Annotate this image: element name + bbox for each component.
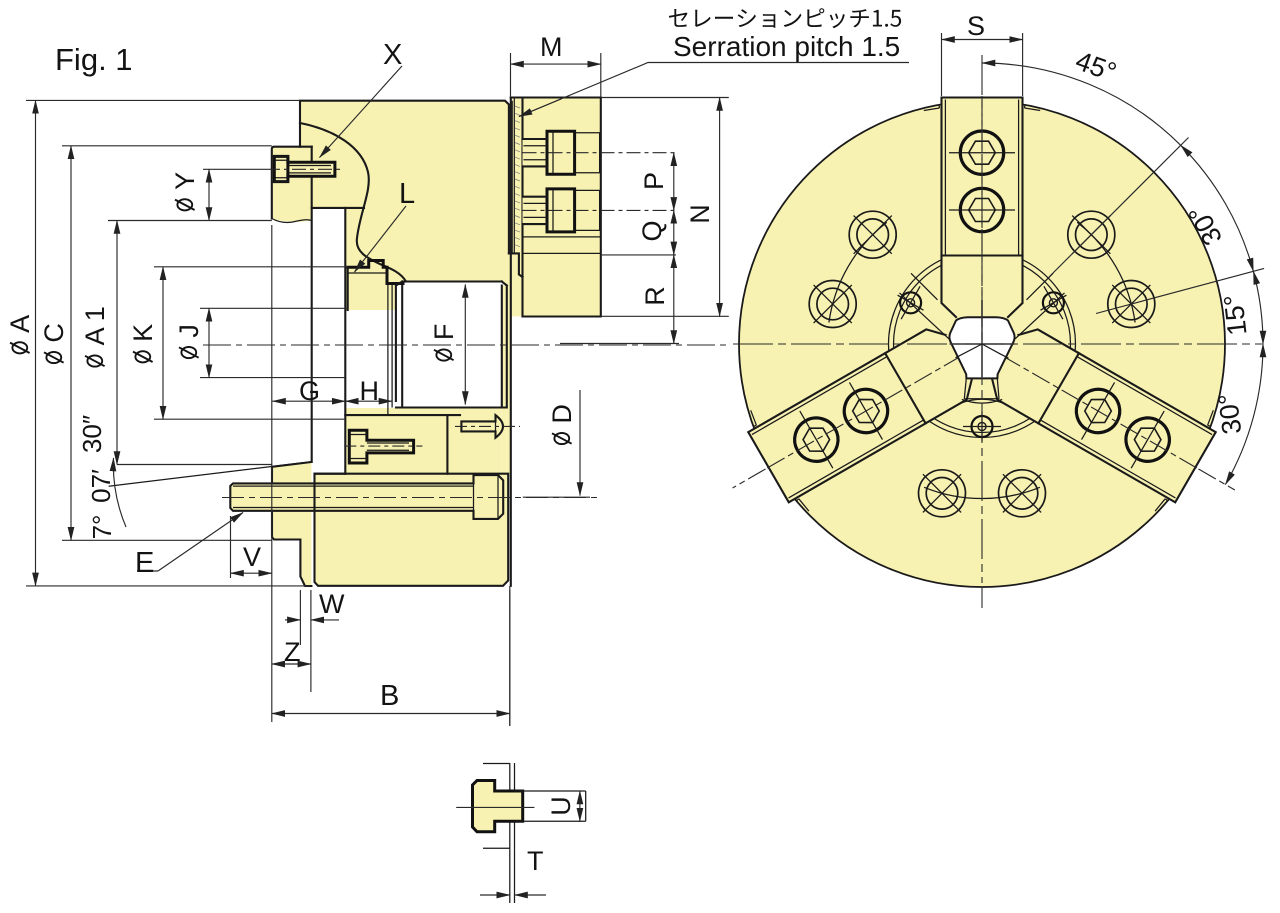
jaw (side view) fill <box>512 98 601 317</box>
svg-text:P: P <box>639 172 669 190</box>
dimension phiY <box>203 168 266 170</box>
center hole chamfer lines <box>956 344 1009 358</box>
svg-text:M: M <box>540 32 563 62</box>
wedge block fill <box>345 408 502 474</box>
45deg dim arc <box>982 63 1181 145</box>
mount hole pair arcs <box>829 222 1135 498</box>
hub circles <box>894 256 1071 433</box>
dimension W <box>300 590 311 692</box>
svg-text:B: B <box>380 680 399 712</box>
body top-left fill between curve and recess <box>300 123 369 208</box>
dimension H <box>345 400 392 402</box>
svg-text:S: S <box>967 11 985 41</box>
bore right wall fill <box>502 286 507 474</box>
svg-text:Serration pitch 1.5: Serration pitch 1.5 <box>673 31 900 62</box>
body back face <box>510 98 512 586</box>
svg-text:C: C <box>39 323 69 343</box>
P Q R N extension lines <box>560 98 729 344</box>
recess right edge <box>344 208 346 474</box>
adapter flange lower outline <box>272 462 311 586</box>
mount hole at 45 deg <box>1068 211 1115 258</box>
draw bolt centerline <box>222 497 600 499</box>
dimension M <box>511 53 601 97</box>
hole crosshair <box>950 300 1015 377</box>
dimension phiK <box>154 266 348 268</box>
leader X <box>320 66 403 158</box>
right view centerlines <box>733 343 1262 345</box>
leader L <box>355 206 407 272</box>
jaw bolt upper <box>523 131 677 174</box>
dimension V <box>231 225 272 722</box>
dimension N <box>719 98 721 317</box>
bottom body block fill <box>315 474 509 586</box>
dimension G <box>273 400 346 402</box>
jaw bolt <box>1068 381 1127 440</box>
serration strip <box>512 98 514 254</box>
T-bolt with half-round head <box>455 415 520 438</box>
adapter flange upper fill <box>272 147 312 222</box>
jaw outline <box>511 98 601 317</box>
svg-text:7°: 7° <box>87 515 117 540</box>
flange wavy break <box>272 219 312 223</box>
svg-text:30°: 30° <box>1213 392 1248 436</box>
svg-text:G: G <box>299 376 320 406</box>
jaw inner lines <box>523 237 601 254</box>
dimension U <box>579 791 581 821</box>
jaw axis extension -30deg <box>1199 469 1235 490</box>
jaw bolt <box>960 188 1003 231</box>
svg-text:X: X <box>383 39 402 71</box>
left view centerline <box>203 344 731 346</box>
dimension S <box>942 33 1023 96</box>
body sectional S-curve <box>300 123 406 282</box>
chuck body upper fill <box>300 101 523 474</box>
dimension Z <box>272 663 311 665</box>
B extension line <box>509 586 511 726</box>
body right edge lower step <box>509 253 523 277</box>
dimension T <box>510 849 515 903</box>
socket screw lower <box>344 430 422 463</box>
dimension Q <box>673 210 675 255</box>
chuck disc <box>739 101 1225 587</box>
dimension P <box>673 153 675 211</box>
dimension phiC <box>62 145 272 147</box>
dimension phiA1 <box>108 220 272 222</box>
svg-text:A: A <box>5 315 35 333</box>
svg-text:H: H <box>360 376 380 406</box>
dimension phiA <box>26 99 300 101</box>
svg-text:Fig. 1: Fig. 1 <box>55 42 133 77</box>
jaw bolt <box>1118 410 1177 469</box>
jaw bolt <box>960 131 1003 174</box>
radial line 15deg <box>1096 268 1264 313</box>
jaw assembly top <box>942 92 1023 320</box>
dimension phiF <box>464 285 466 405</box>
hub screws <box>1041 286 1067 319</box>
svg-text:K: K <box>128 324 158 342</box>
T-nut <box>473 781 523 832</box>
dimension R <box>673 255 675 344</box>
hub gap guide lines <box>900 273 950 339</box>
flange right edge / recess left edge <box>311 147 313 462</box>
spindle bore outline <box>396 282 507 408</box>
mount hole at 15 deg <box>1108 281 1155 328</box>
center hole <box>949 317 1014 378</box>
rim tabs <box>924 105 940 111</box>
serration pitch note leader <box>519 63 909 117</box>
wear plate <box>510 763 515 849</box>
jaw axis extension 210deg <box>733 469 766 488</box>
svg-text:T: T <box>527 846 544 876</box>
svg-text:Y: Y <box>170 172 200 190</box>
adapter flange upper outline <box>272 147 312 219</box>
dimension phiD <box>579 390 581 496</box>
svg-text:V: V <box>243 542 261 572</box>
svg-text:15°: 15° <box>1218 293 1252 337</box>
svg-text:A 1: A 1 <box>80 306 110 345</box>
mount hole at 135 deg <box>849 211 896 258</box>
hub bore arcs below neck <box>961 399 1004 403</box>
wedge area outline <box>315 415 461 474</box>
svg-text:W: W <box>319 589 345 619</box>
svg-text:Q: Q <box>637 220 667 241</box>
jaw assembly lower-left <box>983 321 1221 505</box>
adapter flange lower fill <box>272 462 311 586</box>
7deg angle dimension <box>117 464 272 466</box>
svg-text:N: N <box>685 204 715 224</box>
master jaw tab outline <box>348 261 403 284</box>
svg-text:F: F <box>429 324 459 341</box>
jaw bolt lower <box>523 189 677 232</box>
bottom body block outline <box>315 474 509 586</box>
leader E <box>137 570 158 572</box>
jaw bolt <box>836 381 895 440</box>
svg-text:07′: 07′ <box>86 469 116 503</box>
draw bolt E fill <box>230 475 503 519</box>
dimension B <box>509 590 511 726</box>
mount hole at 255 deg <box>919 470 966 517</box>
30deg dim arc lower <box>1225 344 1263 485</box>
serration taper 7deg line <box>109 462 312 487</box>
mount hole at 285 deg <box>999 470 1046 517</box>
jaw bolt <box>787 410 846 469</box>
svg-text:D: D <box>547 404 577 424</box>
svg-text:J: J <box>174 324 204 338</box>
jaw assembly lower-right <box>744 321 982 505</box>
svg-text:R: R <box>640 286 670 306</box>
JP note text (vector) <box>669 8 901 28</box>
radial line 45deg <box>1050 138 1189 277</box>
30deg dim arc upper <box>1181 145 1254 271</box>
svg-text:30″: 30″ <box>77 415 107 453</box>
mount bolt X <box>266 156 342 181</box>
body outline top <box>300 101 509 254</box>
T-nut centerline <box>456 806 534 808</box>
nose piece fill <box>345 208 406 310</box>
15deg dim arc <box>1253 271 1263 344</box>
T-nut hole lines <box>515 791 586 821</box>
mount hole at 165 deg <box>809 281 856 328</box>
svg-text:U: U <box>546 796 576 816</box>
bottom neck <box>964 378 999 398</box>
serration teeth <box>515 106 520 247</box>
svg-text:E: E <box>135 547 154 579</box>
recess top edge <box>312 207 364 209</box>
svg-text:Z: Z <box>284 637 301 667</box>
dimension phiJ <box>200 307 348 309</box>
draw bolt E outline <box>230 475 503 519</box>
svg-text:L: L <box>399 178 415 210</box>
